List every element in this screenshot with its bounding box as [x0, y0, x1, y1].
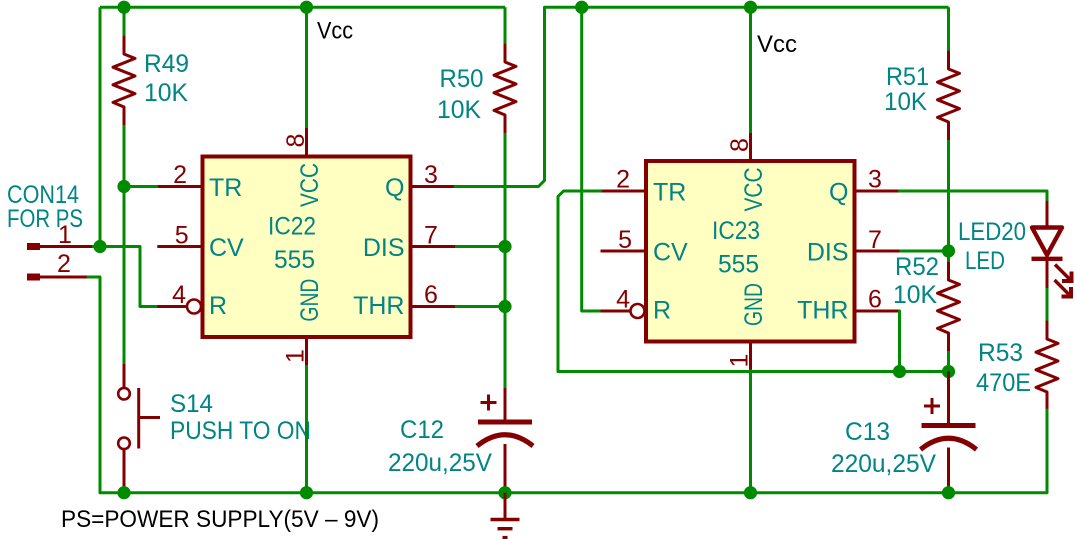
svg-text:THR: THR: [353, 292, 404, 320]
pin 8 VCC stub of IC23: [749, 133, 752, 161]
wire: IC23 pin 1 GND down to ground rail: [749, 370, 752, 493]
svg-text:10K: 10K: [144, 79, 188, 107]
op IC22 555 timer body: [203, 157, 411, 338]
svg-text:TR: TR: [209, 174, 242, 202]
connector CON14 pin 1 pad: [27, 243, 40, 250]
svg-text:555: 555: [274, 246, 315, 274]
wire: R53 bottom to ground rail: [1045, 410, 1048, 493]
junction IC23 reset riser on right rail: [575, 1, 588, 14]
wire: LED20 cathode to R53: [1046, 288, 1049, 322]
wire: DIS node to R52: [947, 251, 950, 263]
junction DIS/R51/R52 node: [942, 244, 955, 257]
svg-text:GND: GND: [740, 283, 768, 326]
pin 4 R stub of IC22 with inversion bubble: [157, 305, 187, 308]
pin 8 VCC stub of IC22: [305, 128, 308, 157]
junction IC23 GND on ground rail: [744, 486, 757, 499]
svg-text:C13: C13: [845, 418, 890, 446]
svg-text:2: 2: [173, 161, 187, 189]
svg-text:R50: R50: [440, 65, 484, 93]
svg-text:3: 3: [868, 166, 882, 194]
svg-text:LED20: LED20: [958, 218, 1026, 246]
wire: ground bottom rail: [100, 491, 1047, 494]
svg-text:1: 1: [726, 354, 754, 368]
resistor R50: [494, 45, 516, 133]
svg-text:Vcc: Vcc: [757, 31, 797, 58]
svg-text:S14: S14: [170, 390, 213, 418]
junction R52/C13 on timing node: [942, 365, 955, 378]
wire: CON14 pin 1 to node: [92, 245, 140, 248]
svg-text:R49: R49: [144, 50, 189, 78]
svg-text:8: 8: [726, 138, 754, 152]
svg-text:2: 2: [57, 250, 71, 278]
svg-text:VCC: VCC: [740, 168, 768, 212]
switch S14: [123, 364, 126, 387]
junction S14 bottom on ground rail: [117, 486, 130, 499]
junction C13 bottom on ground rail: [942, 486, 955, 499]
resistor R53: [1036, 322, 1058, 410]
ground symbol: [504, 493, 507, 518]
pin 5 CV stub of IC22 (no connect): [157, 245, 202, 248]
svg-text:3: 3: [424, 161, 438, 189]
svg-text:Vcc: Vcc: [317, 18, 353, 45]
svg-text:C12: C12: [400, 416, 444, 444]
pin 7 DIS stub of IC22: [411, 245, 456, 248]
pin 2 stub of CON14: [40, 276, 88, 279]
svg-text:555: 555: [718, 251, 759, 279]
svg-text:10K: 10K: [884, 88, 927, 116]
wire: left rail drop to CON14 pin 1: [99, 7, 102, 246]
junction IC22 GND on ground rail: [300, 486, 313, 499]
wire: right rail down to IC23 pin 4 R: [582, 7, 601, 311]
svg-text:8: 8: [282, 134, 310, 148]
pin 3 Q stub of IC23: [855, 190, 900, 193]
wire: Q output to second-stage Vcc riser: [455, 7, 545, 186]
pin 1 stub of CON14: [40, 245, 92, 248]
wire: pin1 node down to IC22 R pin: [140, 247, 158, 307]
wire: DIS to R50 line: [455, 245, 505, 248]
resistor R52: [938, 263, 960, 351]
wire: TR of IC23 down to timing node: [558, 191, 949, 372]
op IC23 555 timer body: [646, 161, 855, 342]
svg-text:THR: THR: [797, 297, 848, 325]
capacitor C12 (polarized): [504, 388, 507, 420]
pin 2 TR stub of IC22: [157, 185, 202, 188]
svg-text:Q: Q: [385, 174, 404, 202]
pin 1 GND stub of IC23: [749, 342, 752, 370]
LED20 light arrows: [1055, 265, 1072, 297]
svg-text:R53: R53: [978, 339, 1023, 367]
svg-text:R: R: [653, 297, 671, 325]
svg-text:5: 5: [618, 226, 632, 254]
svg-text:TR: TR: [653, 179, 686, 207]
junction CON14 pin1 / rail drop: [93, 240, 106, 253]
wire: R52 bottom to timing node: [947, 351, 950, 372]
svg-text:5: 5: [175, 222, 189, 250]
svg-text:PUSH TO ON: PUSH TO ON: [170, 417, 311, 445]
svg-text:IC23: IC23: [712, 217, 760, 245]
wire: Vcc rail down to IC22 pin 8: [305, 7, 308, 128]
wire: Vcc rail to R49 top: [123, 7, 126, 37]
wire: THR of IC23 down to timing node: [898, 311, 901, 372]
svg-text:CV: CV: [209, 234, 244, 262]
svg-text:1: 1: [282, 349, 310, 363]
svg-text:4: 4: [616, 286, 630, 314]
pin 2 TR stub of IC23: [601, 190, 647, 193]
svg-text:IC22: IC22: [268, 213, 316, 241]
svg-text:GND: GND: [296, 279, 324, 322]
svg-text:PS=POWER SUPPLY(5V – 9V): PS=POWER SUPPLY(5V – 9V): [61, 506, 379, 533]
junction at IC22 VCC pin on Vcc rail: [300, 1, 313, 14]
wire: R50 bottom through DIS/THR to C12: [504, 133, 507, 388]
pin 3 Q stub of IC22: [411, 185, 456, 188]
wire: TR junction to pin 2: [124, 185, 157, 188]
resistor R49: [113, 37, 135, 125]
svg-text:CV: CV: [653, 239, 688, 267]
svg-text:FOR PS: FOR PS: [7, 205, 83, 233]
junction THR/C12 node: [498, 300, 511, 313]
svg-text:4: 4: [172, 281, 186, 309]
svg-text:LED: LED: [965, 247, 1005, 275]
svg-text:6: 6: [424, 281, 438, 309]
svg-text:7: 7: [424, 222, 438, 250]
svg-text:220u,25V: 220u,25V: [388, 449, 492, 477]
junction C12 bottom on ground rail: [498, 486, 511, 499]
wire: THR to R50 line: [455, 305, 505, 308]
svg-text:10K: 10K: [437, 96, 481, 124]
pin 1 GND stub of IC22: [305, 337, 308, 365]
resistor R51: [938, 52, 960, 140]
pin 6 THR stub of IC22: [411, 305, 456, 308]
svg-text:470E: 470E: [976, 369, 1031, 397]
svg-text:10K: 10K: [893, 281, 937, 309]
svg-text:220u,25V: 220u,25V: [831, 450, 936, 478]
wire: DIS of IC23 to R51/R52 node: [900, 250, 949, 253]
junction at R49 top on Vcc rail: [117, 1, 130, 14]
svg-text:DIS: DIS: [363, 234, 405, 262]
wire: R51 bottom to DIS node: [947, 140, 950, 251]
pin 5 CV stub of IC23 (no connect): [601, 250, 647, 253]
svg-text:2: 2: [616, 166, 630, 194]
LED LED20: [1046, 201, 1049, 228]
capacitor C13 (polarized): [947, 372, 950, 424]
wire: IC22 pin 1 GND down to ground rail: [305, 365, 308, 493]
svg-text:R51: R51: [886, 63, 929, 91]
junction IC23 VCC pin on right rail: [744, 1, 757, 14]
svg-text:Q: Q: [829, 179, 848, 207]
junction THR riser on timing node: [893, 365, 906, 378]
wire: TR junction down to switch S14: [123, 187, 126, 365]
wire: left Vcc top rail: [100, 6, 505, 9]
wire: right rail down to R51: [947, 7, 950, 52]
wire: CON14 pin 2 to ground rail: [88, 277, 100, 493]
svg-text:DIS: DIS: [807, 239, 849, 267]
svg-text:R: R: [209, 292, 227, 320]
wire: Vcc rail down to R50: [504, 7, 507, 45]
svg-text:VCC: VCC: [296, 163, 324, 207]
wire: R49 bottom to TR junction: [123, 125, 126, 187]
wire: right rail down to IC23 pin 8: [749, 7, 752, 133]
connector CON14 pin 2 pad: [27, 274, 40, 281]
pin 7 DIS stub of IC23: [855, 250, 900, 253]
wire: right Vcc top rail (switched): [545, 6, 949, 9]
svg-text:6: 6: [868, 286, 882, 314]
svg-text:7: 7: [868, 226, 882, 254]
pin 4 R stub of IC23 with inversion bubble: [601, 310, 631, 313]
junction DIS/R50 node: [498, 240, 511, 253]
junction R49/TR/S14 node: [117, 180, 130, 193]
wire: Q of IC23 to LED20 anode: [900, 191, 1048, 201]
svg-text:R52: R52: [895, 253, 939, 281]
pin 6 THR stub of IC23: [855, 310, 900, 313]
